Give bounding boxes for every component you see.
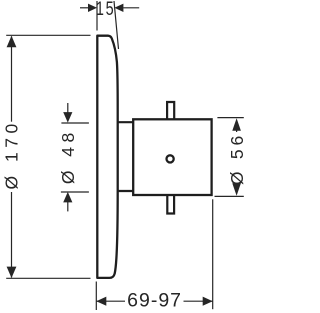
top tab	[167, 102, 174, 120]
handle body	[133, 119, 211, 195]
svg-text:Ø 56: Ø 56	[227, 132, 247, 185]
dimension diameter 56	[215, 118, 244, 197]
dimension 15	[80, 1, 139, 49]
dimension diameter 170	[6, 35, 90, 278]
escutcheon plate	[97, 36, 117, 278]
bottom tab	[167, 194, 174, 214]
svg-text:69-97: 69-97	[127, 290, 182, 312]
svg-text:Ø 48: Ø 48	[58, 128, 78, 184]
dimension 69-97	[96, 199, 212, 310]
sleeve	[117, 122, 133, 191]
handle dot	[167, 155, 174, 162]
svg-text:Ø 170: Ø 170	[2, 119, 22, 189]
dimension diameter 48	[61, 103, 89, 211]
svg-text:15: 15	[96, 0, 115, 20]
